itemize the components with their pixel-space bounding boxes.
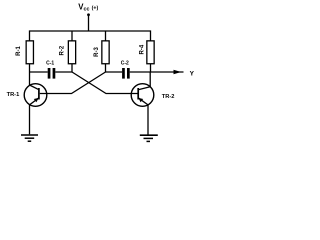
output arrowhead Y xyxy=(174,70,182,74)
resistor R3 xyxy=(94,41,109,64)
wire cross diagonal R2 to TR2 base xyxy=(72,72,138,94)
svg-text:R-3: R-3 xyxy=(94,47,100,57)
wire output Y xyxy=(151,71,184,73)
wire TR1 collector lead xyxy=(29,72,31,85)
wire R2 bottom stub xyxy=(71,64,73,72)
wire C2 right xyxy=(130,71,151,73)
svg-text:TR-1: TR-1 xyxy=(7,92,20,98)
wire C1 right xyxy=(55,71,72,73)
wire TR2 emitter lead xyxy=(147,105,149,135)
svg-text:R-4: R-4 xyxy=(140,44,146,54)
wire cross diagonal R3 to TR1 base xyxy=(40,72,106,94)
wire R4 bottom stub xyxy=(150,64,152,72)
transistor TR2 xyxy=(131,84,174,107)
svg-text:Y: Y xyxy=(190,71,195,78)
wire Vcc lead xyxy=(88,15,90,31)
resistor R1 xyxy=(16,41,33,64)
wire TR2 collector lead xyxy=(149,72,151,88)
resistor R4 xyxy=(140,41,155,64)
wire TR1 emitter lead xyxy=(29,105,31,135)
svg-text:TR-2: TR-2 xyxy=(162,94,175,100)
ground GND2 xyxy=(140,135,158,141)
svg-text:C-2: C-2 xyxy=(121,61,129,67)
resistor R2 xyxy=(60,41,76,64)
svg-text:R-2: R-2 xyxy=(60,45,66,55)
wire R1 bottom stub xyxy=(29,64,31,72)
ground GND1 xyxy=(21,135,38,141)
wire C2 left xyxy=(106,71,123,73)
wire R2 top stub xyxy=(71,31,73,41)
svg-text:R-1: R-1 xyxy=(16,46,22,56)
transistor TR1 xyxy=(7,84,47,107)
wire R3 top stub xyxy=(105,31,107,41)
capacitor C2 xyxy=(121,61,130,79)
svg-text:C-1: C-1 xyxy=(46,61,54,67)
capacitor C1 xyxy=(46,61,55,79)
wire C1 left xyxy=(30,71,48,73)
wire R3 bottom stub xyxy=(105,64,107,72)
wire Vcc rail xyxy=(30,31,151,41)
node Vcc dot xyxy=(87,13,90,16)
